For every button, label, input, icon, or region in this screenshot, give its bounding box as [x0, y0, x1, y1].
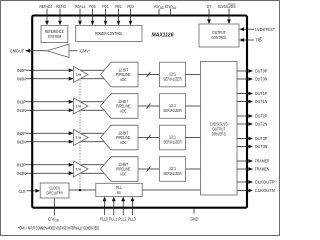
wire clock dashed distribution [79, 75, 81, 191]
wire serializer to output drivers ch3 [186, 168, 201, 170]
svg-text:PDALL: PDALL [75, 4, 86, 10]
svg-text:ADC: ADC [120, 109, 127, 114]
pin OUT0N [237, 78, 249, 80]
serializer 12:1 ch3 [160, 157, 186, 182]
svg-text:SERIALIZER: SERIALIZER [163, 108, 182, 113]
svg-text:PLL3: PLL3 [128, 216, 136, 222]
svg-text:PLL2: PLL2 [118, 216, 126, 222]
node clock junction [79, 189, 82, 192]
amplifier T/H ch2 [74, 130, 89, 146]
wire T/H to ADC differential pair ch3 [78, 164, 105, 166]
wire T/H to ADC differential pair ch1 [78, 101, 105, 103]
pin OUT2P [237, 115, 249, 117]
wire clock circuitry to PLL [69, 189, 96, 191]
pin OUT2N [237, 123, 249, 125]
svg-text:SLVS/LVDS: SLVS/LVDS [218, 4, 236, 10]
svg-text:OUT1N: OUT1N [255, 99, 268, 105]
svg-text:*ICMV = INPUT COMMON-MODE VOLT: *ICMV = INPUT COMMON-MODE VOLTAGE (INTER… [18, 225, 99, 230]
wire IN2N input [26, 141, 73, 143]
block reference system [41, 25, 68, 42]
svg-text:CVDD: CVDD [48, 216, 60, 222]
svg-text:OUT0N: OUT0N [255, 77, 268, 83]
svg-text:T/H: T/H [75, 167, 81, 171]
svg-text:T/H: T/H [75, 136, 81, 140]
pin FRAMEN [237, 168, 249, 170]
svg-text:IN2P: IN2P [17, 131, 26, 137]
block output control [199, 24, 239, 47]
block power control [76, 25, 142, 41]
svg-text:T/H: T/H [75, 104, 81, 108]
svg-text:OUT2P: OUT2P [255, 114, 267, 120]
wire T/H to ADC differential pair ch0 [78, 69, 105, 71]
pin OUT1P [237, 93, 249, 95]
svg-text:POWER CONTROL: POWER CONTROL [95, 31, 123, 36]
svg-text:MAX1126: MAX1126 [152, 33, 175, 39]
pin GND [193, 208, 195, 214]
svg-text:IN3N: IN3N [17, 171, 26, 177]
pin FRAMEP [237, 160, 249, 162]
svg-text:6x: 6x [117, 190, 122, 195]
svg-text:PLL0: PLL0 [100, 216, 108, 222]
svg-text:ADC: ADC [120, 77, 127, 82]
svg-text:IN0N: IN0N [17, 76, 26, 82]
svg-text:CONTROL: CONTROL [211, 35, 227, 40]
svg-text:IN3P: IN3P [17, 163, 26, 169]
svg-text:OUT0P: OUT0P [255, 69, 267, 75]
svg-text:OUT1P: OUT1P [255, 91, 267, 97]
pin PLL0 [104, 200, 106, 215]
wire serializer to output drivers ch0 [186, 74, 201, 76]
wire PLL to output drivers [142, 189, 200, 191]
pin CMOUT [26, 49, 31, 53]
svg-text:REFIO: REFIO [56, 4, 66, 10]
wire CVDD supply [53, 198, 55, 216]
svg-text:IN1P: IN1P [17, 100, 26, 106]
svg-text:OUT3N: OUT3N [255, 144, 268, 150]
svg-text:CIRCUITRY: CIRCUITRY [46, 190, 64, 195]
pin LVDSTEST [240, 28, 255, 30]
svg-text:CLK: CLK [19, 189, 27, 195]
pin CLKOUTP [237, 181, 249, 183]
amplifier T/H ch0 [74, 67, 89, 83]
svg-text:FRAMEP: FRAMEP [255, 159, 269, 165]
pin OUT3N [237, 146, 249, 148]
wire serializer to output drivers ch2 [186, 137, 201, 139]
svg-text:SERIALIZER: SERIALIZER [163, 171, 182, 176]
svg-text:PLL1: PLL1 [109, 216, 117, 222]
wire ADC to serializer bus ch1 [138, 105, 160, 107]
wire IN1P input [26, 101, 73, 103]
pin CLKOUTN [237, 190, 249, 192]
svg-text:FRAMEN: FRAMEN [255, 167, 270, 173]
amplifier T/H ch1 [74, 98, 89, 114]
svg-text:OUT2N: OUT2N [255, 122, 268, 128]
wire IN2P input [26, 132, 73, 134]
ADC 12-bit pipeline ch2 [101, 125, 139, 150]
serializer 12:1 ch2 [160, 125, 186, 150]
pin OUT0P [237, 70, 249, 72]
pin PLL2 [122, 200, 124, 215]
svg-text:T/H: T/H [75, 73, 81, 77]
pin PLL3 [132, 200, 134, 215]
svg-text:REFADJ: REFADJ [39, 4, 52, 10]
svg-text:CMOUT: CMOUT [10, 49, 24, 55]
wire ADC to serializer bus ch2 [138, 137, 160, 139]
wire T/H to ADC differential pair ch2 [78, 132, 105, 134]
ADC 12-bit pipeline ch3 [101, 157, 139, 182]
pin OUT3P [237, 138, 249, 140]
serializer 12:1 ch0 [160, 62, 186, 87]
ADC 12-bit pipeline ch1 [101, 94, 139, 119]
svg-text:CLKOUTP: CLKOUTP [255, 180, 275, 186]
block clock circuitry [40, 183, 69, 198]
wire ADC to serializer bus ch3 [138, 168, 160, 170]
wire serializer to output drivers ch1 [186, 105, 201, 107]
pin PLL1 [113, 200, 115, 215]
svg-text:ICMV*: ICMV* [80, 49, 91, 55]
svg-text:SERIALIZER: SERIALIZER [163, 139, 182, 144]
wire CLK input [27, 190, 40, 192]
svg-text:DRIVERS: DRIVERS [212, 131, 226, 136]
svg-text:ADC: ADC [120, 140, 127, 145]
svg-text:IN2N: IN2N [17, 139, 26, 145]
ADC 12-bit pipeline ch0 [101, 62, 139, 87]
svg-text:SYSTEM: SYSTEM [48, 34, 62, 39]
svg-text:CLKOUTN: CLKOUTN [255, 188, 275, 194]
pin T/B [240, 39, 255, 41]
wire IN3N input [26, 172, 73, 174]
svg-text:ADC: ADC [120, 172, 127, 177]
pin OUT1N [237, 101, 249, 103]
serializer 12:1 ch1 [160, 94, 186, 119]
block LVDS/SLVS output drivers [201, 62, 238, 196]
chip outline MAX1128 [32, 16, 247, 208]
block PLL 6x [96, 183, 142, 196]
wire IN3P input [26, 164, 73, 166]
amplifier T/H ch3 [74, 161, 89, 177]
wire IN1N input [26, 109, 73, 111]
svg-text:IN1N: IN1N [17, 108, 26, 114]
svg-text:OUT3P: OUT3P [255, 136, 267, 142]
svg-text:IN0P: IN0P [17, 68, 26, 74]
wire ADC to serializer bus ch0 [138, 74, 160, 76]
svg-text:GND: GND [191, 216, 199, 222]
svg-text:T/B: T/B [255, 38, 262, 44]
wire IN0N input [26, 78, 73, 80]
svg-text:SERIALIZER: SERIALIZER [163, 76, 182, 81]
wire IN0P input [26, 69, 73, 71]
op-amp common-mode buffer [26, 50, 48, 52]
svg-text:LVDSTEST: LVDSTEST [255, 27, 275, 33]
